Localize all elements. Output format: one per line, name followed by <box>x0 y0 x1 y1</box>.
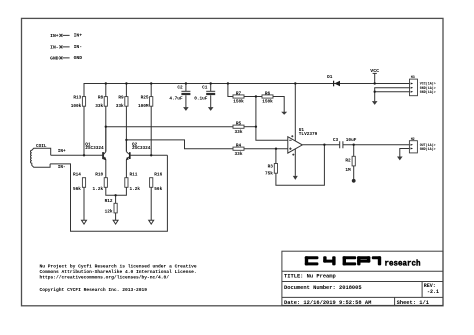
svg-text:R3: R3 <box>268 165 274 170</box>
svg-text:R25: R25 <box>141 95 149 100</box>
svg-text:R6: R6 <box>265 91 271 96</box>
svg-text:research: research <box>385 259 421 268</box>
svg-text:TLV2379: TLV2379 <box>299 132 318 137</box>
svg-text:https://creativecommons.org/li: https://creativecommons.org/licenses/by-… <box>40 275 170 281</box>
svg-text:Date: 12/16/2019 9:52:58 AM: Date: 12/16/2019 9:52:58 AM <box>284 300 371 306</box>
svg-text:75k: 75k <box>265 172 273 177</box>
svg-text:IN-: IN- <box>50 45 59 51</box>
svg-text:H2: H2 <box>411 137 415 141</box>
svg-text:R9: R9 <box>118 95 124 100</box>
svg-text:1.2k: 1.2k <box>130 187 141 192</box>
svg-text:IN+: IN+ <box>50 33 59 39</box>
svg-text:Copyright CYCFI Research Inc.: Copyright CYCFI Research Inc. 2013-2019 <box>40 287 148 293</box>
svg-text:33k: 33k <box>235 152 243 157</box>
svg-text:4.7uF: 4.7uF <box>169 97 183 102</box>
svg-text:2SC3324: 2SC3324 <box>85 146 104 151</box>
svg-text:R16: R16 <box>154 173 162 178</box>
svg-text:IN+: IN+ <box>58 149 66 154</box>
svg-text:R5: R5 <box>236 122 242 127</box>
svg-text:56k: 56k <box>73 187 81 192</box>
svg-text:D1: D1 <box>327 75 333 80</box>
svg-text:R11: R11 <box>130 173 138 178</box>
svg-text:33k: 33k <box>116 104 124 109</box>
svg-text:R10: R10 <box>95 173 103 178</box>
svg-text:Document Number: 2018005: Document Number: 2018005 <box>284 285 362 291</box>
svg-text:100k: 100k <box>71 104 82 109</box>
svg-text:C2: C2 <box>177 85 183 90</box>
svg-text:IN+: IN+ <box>74 33 83 39</box>
svg-text:R7: R7 <box>236 91 242 96</box>
svg-text:1M: 1M <box>345 168 351 173</box>
svg-text:Nu Project by Cycfi Research i: Nu Project by Cycfi Research is licensed… <box>40 263 197 269</box>
svg-text:C3: C3 <box>333 138 339 143</box>
svg-text:150k: 150k <box>233 100 244 105</box>
svg-text:R4: R4 <box>236 144 242 149</box>
svg-text:R2: R2 <box>345 158 351 163</box>
svg-text:2SC3324: 2SC3324 <box>132 146 151 151</box>
svg-text:1.2k: 1.2k <box>93 187 104 192</box>
svg-text:R13: R13 <box>73 95 81 100</box>
svg-text:33k: 33k <box>235 130 243 135</box>
svg-text:Sheet: 1/1: Sheet: 1/1 <box>397 300 429 306</box>
svg-text:TITLE: Nu Preamp: TITLE: Nu Preamp <box>284 274 336 280</box>
svg-text:GND(1A)>: GND(1A)> <box>420 90 436 94</box>
svg-text:0.1uF: 0.1uF <box>194 97 208 102</box>
svg-text:GND: GND <box>50 56 59 62</box>
svg-text:IN-: IN- <box>74 44 83 50</box>
svg-text:R8: R8 <box>98 95 104 100</box>
svg-text:56k: 56k <box>154 187 162 192</box>
svg-text:R14: R14 <box>73 173 81 178</box>
svg-text:H3: H3 <box>411 75 415 79</box>
svg-text:R12: R12 <box>105 199 113 204</box>
svg-text:10uF: 10uF <box>346 138 357 143</box>
svg-text:-2.1: -2.1 <box>427 289 439 295</box>
svg-text:GND: GND <box>74 55 83 61</box>
svg-text:COIL: COIL <box>36 144 47 149</box>
svg-text:150k: 150k <box>262 100 273 105</box>
svg-text:C1: C1 <box>202 85 208 90</box>
svg-text:12k: 12k <box>105 210 113 215</box>
svg-text:Commons Attribution-ShareAlike: Commons Attribution-ShareAlike 4.0 Inter… <box>40 269 197 275</box>
svg-text:IN-: IN- <box>58 165 66 170</box>
svg-text:100M: 100M <box>138 104 149 109</box>
svg-text:GND(1A)>: GND(1A)> <box>420 147 436 151</box>
svg-text:33k: 33k <box>95 104 103 109</box>
